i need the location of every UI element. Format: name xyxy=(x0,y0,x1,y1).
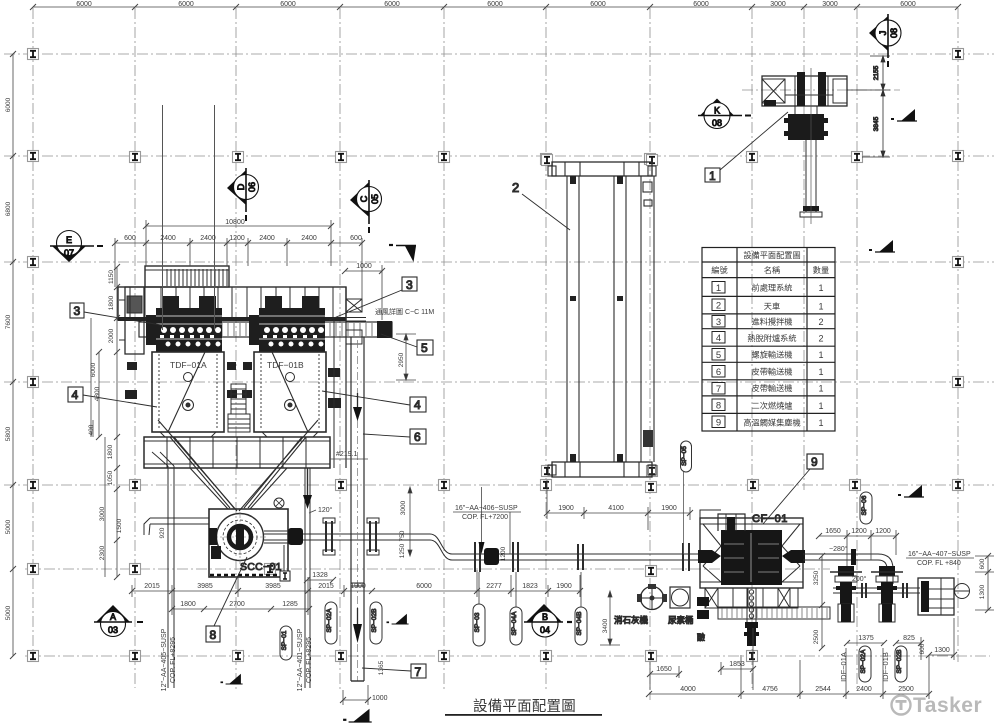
svg-text:5: 5 xyxy=(716,350,721,361)
svg-text:1: 1 xyxy=(709,169,716,183)
svg-text:皮帶輸送機: 皮帶輸送機 xyxy=(752,367,793,377)
svg-text:設備平面配置圖: 設備平面配置圖 xyxy=(473,698,576,715)
svg-text:1375: 1375 xyxy=(858,635,874,642)
svg-text:SP−03: SP−03 xyxy=(474,612,481,632)
svg-text:600: 600 xyxy=(350,235,362,242)
svg-text:8: 8 xyxy=(716,401,721,412)
svg-text:1900: 1900 xyxy=(556,583,572,590)
svg-text:600: 600 xyxy=(979,558,986,569)
svg-text:螺旋輸送機: 螺旋輸送機 xyxy=(752,350,793,360)
svg-text:A: A xyxy=(110,612,116,622)
svg-text:1800: 1800 xyxy=(180,601,196,608)
svg-text:08: 08 xyxy=(889,28,899,38)
svg-text:9: 9 xyxy=(811,455,818,469)
svg-text:2500: 2500 xyxy=(813,629,820,644)
svg-text:4000: 4000 xyxy=(680,686,696,693)
svg-text:數量: 數量 xyxy=(813,265,829,275)
svg-text:1: 1 xyxy=(818,418,823,428)
svg-text:1200: 1200 xyxy=(875,528,891,535)
svg-text:1853: 1853 xyxy=(729,661,745,668)
svg-text:進料攪拌機: 進料攪拌機 xyxy=(752,317,793,327)
svg-text:2400: 2400 xyxy=(301,235,317,242)
svg-text:熱脫附爐系統: 熱脫附爐系統 xyxy=(747,333,796,343)
svg-text:6000: 6000 xyxy=(280,1,296,8)
svg-text:7: 7 xyxy=(716,384,721,395)
svg-text:5000: 5000 xyxy=(5,519,12,534)
svg-text:6000: 6000 xyxy=(90,362,97,377)
svg-text:06: 06 xyxy=(247,182,257,192)
svg-text:1200: 1200 xyxy=(851,528,867,535)
svg-text:2: 2 xyxy=(512,180,519,195)
svg-text:SP−01: SP−01 xyxy=(281,630,288,650)
svg-text:5000: 5000 xyxy=(5,605,12,620)
svg-text:03: 03 xyxy=(108,625,118,635)
svg-text:1150: 1150 xyxy=(108,270,115,284)
svg-text:IDF−01A: IDF−01A xyxy=(839,652,848,682)
svg-text:1650: 1650 xyxy=(656,666,672,673)
svg-text:1050: 1050 xyxy=(107,470,114,485)
svg-text:5800: 5800 xyxy=(5,426,12,441)
svg-text:2400: 2400 xyxy=(200,235,216,242)
svg-text:2500: 2500 xyxy=(898,686,914,693)
svg-text:1328: 1328 xyxy=(312,572,328,579)
svg-text:SP−02A: SP−02A xyxy=(860,649,867,674)
svg-text:SCC−01: SCC−01 xyxy=(240,561,282,573)
svg-text:9: 9 xyxy=(716,418,721,429)
svg-text:B: B xyxy=(542,612,548,622)
svg-text:2015: 2015 xyxy=(318,583,334,590)
svg-text:皮帶輸送機: 皮帶輸送機 xyxy=(752,383,793,393)
svg-text:1200: 1200 xyxy=(229,235,245,242)
svg-text:1900: 1900 xyxy=(661,505,677,512)
svg-text:#219.1: #219.1 xyxy=(336,451,358,458)
svg-text:5: 5 xyxy=(421,341,428,355)
svg-text:10800: 10800 xyxy=(225,219,245,226)
svg-text:3250: 3250 xyxy=(813,570,820,585)
svg-text:4756: 4756 xyxy=(762,686,778,693)
svg-text:1250: 1250 xyxy=(399,543,406,558)
svg-text:1900: 1900 xyxy=(350,583,366,590)
svg-text:E: E xyxy=(66,235,72,245)
svg-text:3000: 3000 xyxy=(822,1,838,8)
svg-text:6000: 6000 xyxy=(693,1,709,8)
svg-text:−280°: −280° xyxy=(829,545,848,553)
svg-text:2000: 2000 xyxy=(108,328,115,343)
svg-text:1300: 1300 xyxy=(934,647,950,654)
svg-text:4800: 4800 xyxy=(94,386,101,401)
svg-text:6000: 6000 xyxy=(384,1,400,8)
svg-text:7: 7 xyxy=(415,665,422,679)
svg-text:C: C xyxy=(359,195,369,202)
svg-text:3985: 3985 xyxy=(265,583,281,590)
svg-text:1: 1 xyxy=(818,302,823,312)
svg-text:6: 6 xyxy=(716,367,721,378)
svg-text:400: 400 xyxy=(88,424,95,435)
svg-text:16"−AA−407−SUSP: 16"−AA−407−SUSP xyxy=(908,551,971,558)
svg-text:2400: 2400 xyxy=(160,235,176,242)
svg-text:6000: 6000 xyxy=(5,97,12,112)
svg-text:6000: 6000 xyxy=(487,1,503,8)
svg-text:2400: 2400 xyxy=(259,235,275,242)
svg-text:200°: 200° xyxy=(852,575,867,583)
svg-text:TDF−01A: TDF−01A xyxy=(170,360,207,370)
svg-text:1000: 1000 xyxy=(372,695,388,702)
svg-text:6: 6 xyxy=(414,430,421,444)
svg-text:SP−02B: SP−02B xyxy=(371,608,378,632)
svg-text:04: 04 xyxy=(540,625,550,635)
svg-text:6800: 6800 xyxy=(5,201,12,216)
svg-text:尿素桶: 尿素桶 xyxy=(668,615,694,625)
svg-text:2: 2 xyxy=(716,301,721,312)
svg-text:6000: 6000 xyxy=(590,1,606,8)
svg-text:名稱: 名稱 xyxy=(764,265,780,275)
svg-text:4: 4 xyxy=(72,388,79,402)
svg-text:8: 8 xyxy=(210,628,217,642)
svg-text:TDF−01B: TDF−01B xyxy=(267,360,304,370)
svg-text:3000: 3000 xyxy=(770,1,786,8)
svg-text:2300: 2300 xyxy=(99,545,106,560)
svg-text:1650: 1650 xyxy=(825,528,841,535)
svg-text:SP−05: SP−05 xyxy=(681,446,688,466)
svg-text:消石灰機: 消石灰機 xyxy=(614,615,649,625)
svg-text:1: 1 xyxy=(818,367,823,377)
svg-text:1: 1 xyxy=(818,350,823,360)
svg-text:1800: 1800 xyxy=(107,444,114,459)
svg-text:J: J xyxy=(878,31,888,36)
svg-text:設備平面配置圖: 設備平面配置圖 xyxy=(743,250,800,260)
svg-text:12"−AA−401−SUSP: 12"−AA−401−SUSP xyxy=(297,628,304,691)
svg-text:750: 750 xyxy=(399,530,406,541)
svg-text:4: 4 xyxy=(716,333,721,344)
svg-text:天車: 天車 xyxy=(764,301,780,311)
svg-text:6000: 6000 xyxy=(178,1,194,8)
svg-text:2155: 2155 xyxy=(873,65,880,80)
svg-text:1: 1 xyxy=(818,283,823,293)
svg-text:COP. FL+8295: COP. FL+8295 xyxy=(170,637,177,683)
svg-text:COP. FL+8295: COP. FL+8295 xyxy=(306,637,313,683)
svg-text:Tasker: Tasker xyxy=(913,694,982,717)
svg-text:前處理系統: 前處理系統 xyxy=(752,283,793,293)
svg-text:08: 08 xyxy=(712,118,722,128)
svg-text:2277: 2277 xyxy=(486,583,502,590)
svg-text:4: 4 xyxy=(414,398,421,412)
svg-text:通風詳圖 C−C 11M: 通風詳圖 C−C 11M xyxy=(375,307,434,316)
svg-text:07: 07 xyxy=(64,248,74,258)
svg-text:SP−06: SP−06 xyxy=(861,495,868,515)
svg-text:編號: 編號 xyxy=(711,265,727,275)
svg-text:2544: 2544 xyxy=(815,686,831,693)
svg-text:SP−02B: SP−02B xyxy=(896,649,903,673)
svg-text:4100: 4100 xyxy=(608,505,624,512)
svg-text:2700: 2700 xyxy=(229,601,245,608)
svg-text:3000: 3000 xyxy=(400,500,407,515)
svg-text:1900: 1900 xyxy=(558,505,574,512)
svg-text:SP−02A: SP−02A xyxy=(326,608,333,633)
svg-text:高溫觸媒集塵機: 高溫觸媒集塵機 xyxy=(743,418,800,428)
svg-text:05: 05 xyxy=(370,194,380,204)
svg-text:2400: 2400 xyxy=(856,686,872,693)
svg-text:1300: 1300 xyxy=(979,584,986,599)
svg-text:12"−AA−405−SUSP: 12"−AA−405−SUSP xyxy=(161,628,168,691)
svg-text:1000: 1000 xyxy=(356,263,372,270)
svg-text:3845: 3845 xyxy=(873,116,880,131)
svg-text:3000: 3000 xyxy=(99,506,106,521)
svg-text:1285: 1285 xyxy=(282,601,298,608)
svg-text:3: 3 xyxy=(74,304,81,318)
svg-text:3: 3 xyxy=(406,278,413,292)
svg-text:1800: 1800 xyxy=(108,295,115,310)
svg-text:二次燃燒爐: 二次燃燒爐 xyxy=(752,401,793,411)
svg-text:SP−04B: SP−04B xyxy=(576,611,583,635)
svg-text:6000: 6000 xyxy=(76,1,92,8)
svg-text:2: 2 xyxy=(818,334,823,344)
svg-text:1: 1 xyxy=(716,283,721,294)
svg-text:D: D xyxy=(236,183,246,190)
svg-text:3: 3 xyxy=(716,317,721,328)
svg-text:825: 825 xyxy=(903,635,915,642)
svg-text:3985: 3985 xyxy=(197,583,213,590)
svg-text:6000: 6000 xyxy=(900,1,916,8)
svg-text:120°: 120° xyxy=(318,506,333,514)
svg-text:16"−AA−406−SUSP: 16"−AA−406−SUSP xyxy=(455,505,518,512)
svg-text:醶: 醶 xyxy=(697,632,705,642)
svg-text:1500: 1500 xyxy=(116,518,123,533)
svg-text:CF−01: CF−01 xyxy=(752,513,788,525)
svg-text:600: 600 xyxy=(124,235,136,242)
svg-text:7600: 7600 xyxy=(5,314,12,329)
svg-text:1823: 1823 xyxy=(522,583,538,590)
svg-text:1365: 1365 xyxy=(378,660,385,675)
svg-text:1: 1 xyxy=(818,401,823,411)
svg-text:K: K xyxy=(714,106,720,116)
svg-text:SP−04A: SP−04A xyxy=(511,611,518,636)
svg-text:1: 1 xyxy=(818,384,823,394)
svg-text:COP. FL+7200: COP. FL+7200 xyxy=(462,514,508,521)
svg-text:2015: 2015 xyxy=(144,583,160,590)
svg-text:920: 920 xyxy=(159,527,166,538)
svg-text:600: 600 xyxy=(919,643,926,654)
svg-text:6000: 6000 xyxy=(416,583,432,590)
svg-text:3400: 3400 xyxy=(602,618,609,633)
svg-text:2950: 2950 xyxy=(398,352,405,367)
svg-text:2: 2 xyxy=(818,317,823,327)
svg-text:1200: 1200 xyxy=(500,546,507,561)
svg-text:COP. FL +840: COP. FL +840 xyxy=(917,560,961,567)
svg-text:IDF−01B: IDF−01B xyxy=(881,652,890,682)
